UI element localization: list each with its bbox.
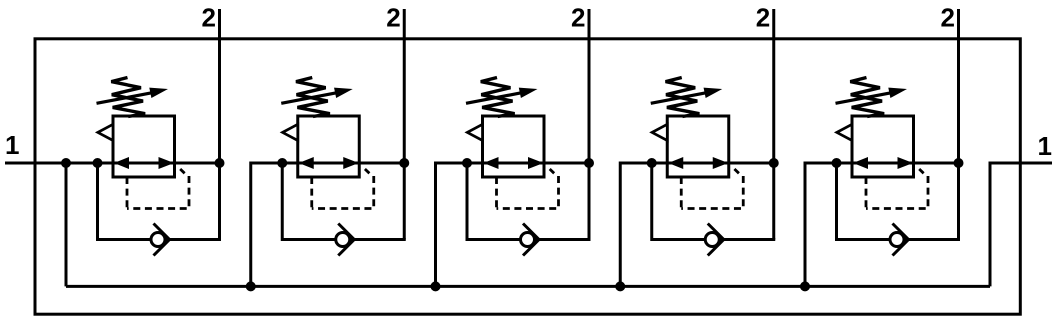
svg-text:1: 1: [1038, 131, 1052, 161]
svg-text:2: 2: [202, 3, 216, 33]
svg-text:2: 2: [386, 3, 400, 33]
svg-text:2: 2: [941, 3, 955, 33]
svg-text:1: 1: [5, 130, 19, 160]
svg-text:2: 2: [756, 3, 770, 33]
svg-text:2: 2: [571, 3, 585, 33]
